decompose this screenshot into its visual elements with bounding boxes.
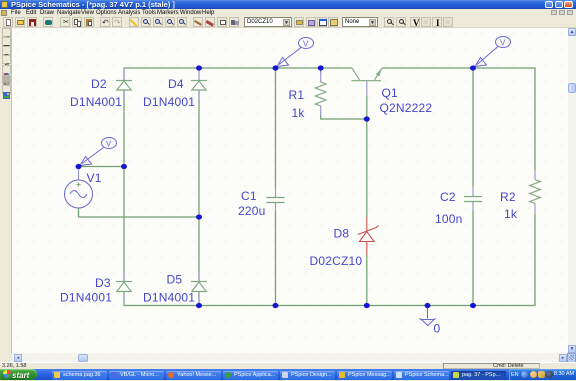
- cut: [60, 17, 70, 27]
- svg-text:1k: 1k: [292, 106, 306, 120]
- wire V1 bottom to second branch: [79, 208, 200, 217]
- svg-text:Q2N2222: Q2N2222: [380, 101, 433, 115]
- wire top rail left (node +rect to Q1 collector): [124, 68, 352, 80]
- wire top rail right (Q1 emitter to R2 top): [382, 68, 535, 170]
- svg-text:D5: D5: [167, 273, 183, 287]
- svg-text:R1: R1: [289, 88, 305, 102]
- bus tool: [205, 17, 215, 27]
- last part: [306, 17, 316, 27]
- junction dot output node: [470, 65, 476, 70]
- transistor Q1: [352, 68, 383, 96]
- junction dot bottom rail at C1: [273, 303, 279, 308]
- undo: [100, 17, 110, 27]
- junction dot V1 plus node: [76, 164, 82, 169]
- block tool: [217, 17, 227, 27]
- save: [27, 17, 37, 27]
- wire bottom rail: [199, 214, 535, 306]
- diode D3: [116, 271, 132, 302]
- svg-text:D1N4001: D1N4001: [70, 95, 122, 109]
- svg-text:D1N4001: D1N4001: [143, 291, 195, 305]
- zoom out: [153, 17, 163, 27]
- diode D5: [191, 271, 207, 302]
- start button: [0, 369, 37, 380]
- svg-text:Q1: Q1: [382, 86, 399, 100]
- junction dot bottom rail at D5: [196, 303, 202, 308]
- edit symbol: [317, 17, 327, 27]
- voltage marker V at output node: [475, 37, 511, 67]
- I button: [432, 17, 442, 27]
- wire C1 branch lower: [275, 211, 277, 306]
- wire second branch below D5: [198, 292, 200, 306]
- resistor R1: [315, 72, 326, 116]
- copy: [72, 17, 82, 27]
- svg-text:R2: R2: [500, 190, 516, 204]
- part combobox: [244, 17, 292, 27]
- none combobox: [342, 17, 378, 27]
- tray: [509, 369, 576, 380]
- print: [43, 17, 53, 27]
- zoom in: [141, 17, 151, 27]
- svg-text:D02CZ10: D02CZ10: [310, 254, 363, 268]
- wire R1 branch upper: [320, 68, 322, 73]
- wire D8 anode to bottom rail: [366, 255, 368, 306]
- wire left branch D2-D3: [123, 90, 125, 281]
- get new part: [294, 17, 304, 27]
- paste: [84, 17, 94, 27]
- junction dot top rail at C1: [273, 65, 279, 70]
- junction dot bottom rail at C2: [470, 303, 476, 308]
- diode D4: [191, 68, 207, 100]
- zoom fit: [177, 17, 187, 27]
- capacitor C2: [464, 186, 482, 211]
- zener diode D8: [358, 217, 379, 255]
- svg-text:D1N4001: D1N4001: [60, 291, 112, 305]
- junction dot top rail at D4: [196, 65, 202, 70]
- wire second branch D4-D5: [198, 90, 200, 281]
- wire V1 top node to left branch: [79, 166, 125, 168]
- svg-text:100n: 100n: [435, 212, 463, 226]
- junction dot Q1 base / R1: [364, 116, 370, 121]
- svg-text:D2: D2: [91, 77, 107, 91]
- svg-text:D3: D3: [95, 276, 111, 290]
- new: [3, 17, 13, 27]
- I gray: [443, 17, 453, 27]
- mag2: [396, 17, 406, 27]
- zoom area: [165, 17, 175, 27]
- V gray: [421, 17, 431, 27]
- capacitor C1: [267, 187, 285, 212]
- svg-text:D4: D4: [168, 77, 184, 91]
- voltage marker V at node V1+: [80, 138, 117, 166]
- svg-text:D1N4001: D1N4001: [143, 95, 195, 109]
- wire R1 bottom to base junction: [321, 115, 367, 119]
- wire C2 branch upper: [472, 68, 474, 187]
- svg-text:V: V: [106, 140, 112, 149]
- source V1: [65, 167, 93, 208]
- svg-text:V: V: [303, 40, 309, 49]
- wire left branch below D3: [124, 292, 199, 306]
- svg-text:C2: C2: [440, 190, 456, 204]
- junction dot bottom rail at D8: [364, 303, 370, 308]
- voltage marker V at C1 top node: [277, 38, 314, 67]
- pencil: [129, 17, 139, 27]
- open: [15, 17, 25, 27]
- svg-text:V: V: [500, 39, 506, 48]
- svg-text:220u: 220u: [238, 204, 266, 218]
- wire tool: [193, 17, 203, 27]
- svg-text:1k: 1k: [504, 207, 518, 221]
- mag1: [384, 17, 394, 27]
- junction dot bottom rail at ground: [425, 303, 431, 308]
- svg-text:0: 0: [434, 322, 441, 336]
- wire C1 branch upper: [275, 68, 277, 188]
- wire C2 branch lower: [472, 211, 474, 306]
- V button: [410, 17, 420, 27]
- junction dot top rail at R1: [318, 65, 324, 70]
- diode D2: [116, 68, 132, 100]
- svg-text:V1: V1: [87, 171, 102, 185]
- edit attributes: [328, 17, 338, 27]
- resistor R2: [530, 170, 541, 214]
- redo (gray): [112, 17, 122, 27]
- junction dot V1 minus node: [196, 214, 202, 219]
- junction dot left branch mid: [121, 164, 127, 169]
- svg-text:C1: C1: [241, 189, 257, 203]
- svg-text:D8: D8: [334, 227, 350, 241]
- ground 0: [420, 306, 436, 326]
- part tool: [229, 17, 239, 27]
- wire Q1 base down to D8: [366, 96, 368, 217]
